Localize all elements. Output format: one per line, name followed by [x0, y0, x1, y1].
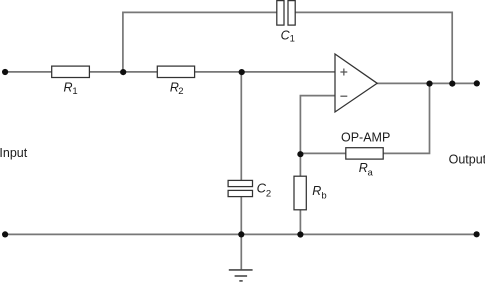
svg-text:a: a — [368, 167, 374, 178]
svg-text:R: R — [359, 161, 368, 175]
svg-text:Output: Output — [449, 152, 485, 166]
svg-text:2: 2 — [178, 86, 183, 97]
svg-text:2: 2 — [266, 188, 271, 199]
svg-text:R: R — [312, 184, 321, 198]
svg-text:1: 1 — [72, 86, 77, 97]
svg-text:1: 1 — [290, 34, 295, 45]
svg-text:Input: Input — [0, 146, 28, 160]
svg-text:R: R — [64, 80, 73, 94]
svg-text:b: b — [321, 190, 326, 201]
svg-text:OP-AMP: OP-AMP — [341, 131, 390, 145]
